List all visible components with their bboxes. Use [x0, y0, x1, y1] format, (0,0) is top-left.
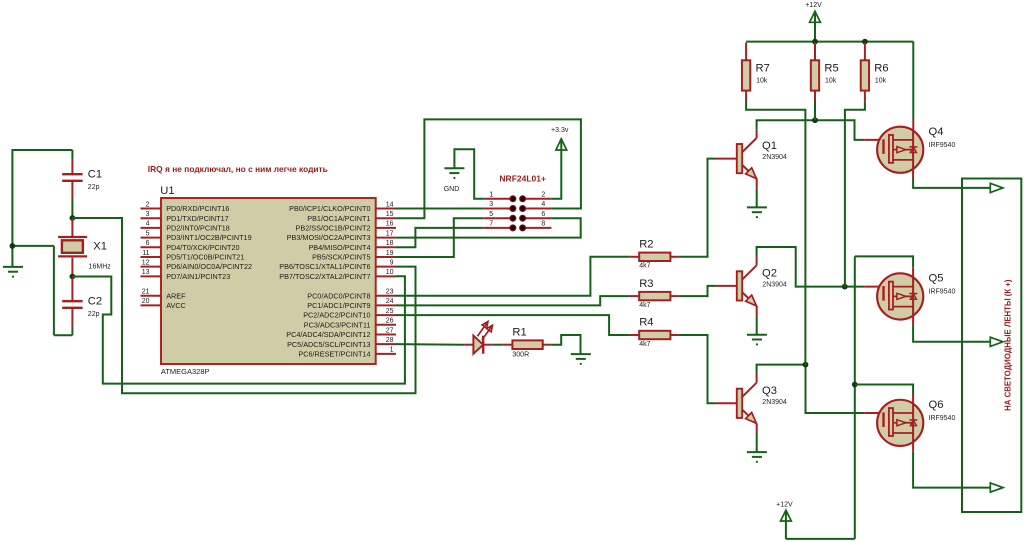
- svg-text:24: 24: [386, 298, 394, 305]
- svg-text:PD4/T0/XCK/PCINT20: PD4/T0/XCK/PCINT20: [166, 243, 239, 252]
- svg-text:R1: R1: [512, 327, 526, 339]
- svg-text:25: 25: [386, 308, 394, 315]
- svg-text:4k7: 4k7: [639, 302, 650, 309]
- svg-text:PC4/ADC4/SDA/PCINT12: PC4/ADC4/SDA/PCINT12: [286, 330, 370, 339]
- svg-text:Q6: Q6: [929, 399, 944, 411]
- svg-text:Q5: Q5: [929, 272, 944, 284]
- svg-text:Q3: Q3: [762, 385, 777, 397]
- svg-text:PD2/INT0/PCINT18: PD2/INT0/PCINT18: [166, 223, 230, 232]
- svg-text:22p: 22p: [88, 311, 100, 318]
- svg-text:PB2/SS/OC1B/PCINT2: PB2/SS/OC1B/PCINT2: [296, 223, 371, 232]
- svg-text:C1: C1: [88, 169, 102, 181]
- svg-text:4: 4: [541, 201, 545, 208]
- svg-text:8: 8: [541, 221, 545, 228]
- svg-text:IRF9540: IRF9540: [929, 142, 956, 149]
- svg-text:2: 2: [541, 192, 545, 199]
- svg-text:22p: 22p: [88, 184, 100, 191]
- svg-text:R4: R4: [639, 317, 653, 329]
- svg-text:3: 3: [146, 211, 150, 218]
- svg-text:10k: 10k: [825, 78, 837, 85]
- svg-text:14: 14: [386, 201, 394, 208]
- svg-text:5: 5: [146, 230, 150, 237]
- svg-text:10k: 10k: [875, 78, 887, 85]
- svg-text:17: 17: [386, 230, 394, 237]
- svg-text:27: 27: [386, 327, 394, 334]
- svg-text:PC5/ADC5/SCL/PCINT13: PC5/ADC5/SCL/PCINT13: [287, 340, 370, 349]
- svg-text:Q4: Q4: [929, 126, 944, 138]
- svg-text:1: 1: [390, 347, 394, 354]
- svg-text:Q2: Q2: [762, 267, 777, 279]
- svg-text:НА СВЕТОДИОДНЫЕ ЛЕНТЫ (К +): НА СВЕТОДИОДНЫЕ ЛЕНТЫ (К +): [1004, 279, 1013, 411]
- svg-text:ATMEGA328P: ATMEGA328P: [161, 367, 210, 376]
- svg-text:23: 23: [386, 289, 394, 296]
- svg-text:+3.3v: +3.3v: [551, 127, 569, 134]
- svg-text:3: 3: [489, 201, 493, 208]
- svg-text:R6: R6: [874, 63, 888, 75]
- svg-text:IRQ я не подключал, но с ним л: IRQ я не подключал, но с ним легче кодит…: [148, 164, 328, 174]
- svg-text:PD5/T1/OC0B/PCINT21: PD5/T1/OC0B/PCINT21: [166, 253, 244, 262]
- svg-text:PB1/OC1A/PCINT1: PB1/OC1A/PCINT1: [307, 214, 370, 223]
- svg-text:R7: R7: [756, 63, 770, 75]
- svg-text:13: 13: [142, 269, 150, 276]
- svg-text:IRF9540: IRF9540: [929, 288, 956, 295]
- svg-text:AVCC: AVCC: [166, 301, 186, 310]
- svg-text:PB0/ICP1/CLKO/PCINT0: PB0/ICP1/CLKO/PCINT0: [289, 204, 370, 213]
- svg-text:+12V: +12V: [776, 501, 793, 508]
- svg-text:PD6/AIN0/OC0A/PCINT22: PD6/AIN0/OC0A/PCINT22: [166, 262, 252, 271]
- svg-text:C2: C2: [88, 296, 102, 308]
- svg-text:4k7: 4k7: [639, 263, 650, 270]
- svg-text:300R: 300R: [512, 352, 529, 359]
- svg-text:Q1: Q1: [762, 140, 777, 152]
- svg-text:10k: 10k: [756, 78, 768, 85]
- svg-text:1: 1: [489, 192, 493, 199]
- svg-text:4: 4: [146, 221, 150, 228]
- svg-text:26: 26: [386, 318, 394, 325]
- svg-text:28: 28: [386, 337, 394, 344]
- svg-text:R3: R3: [639, 278, 653, 290]
- svg-text:PB5/SCK/PCINT5: PB5/SCK/PCINT5: [312, 253, 370, 262]
- svg-text:6: 6: [541, 211, 545, 218]
- svg-text:PB3/MOSI/OC2A/PCINT3: PB3/MOSI/OC2A/PCINT3: [287, 233, 371, 242]
- svg-text:IRF9540: IRF9540: [929, 415, 956, 422]
- svg-text:7: 7: [489, 221, 493, 228]
- svg-text:10: 10: [386, 269, 394, 276]
- svg-text:PD1/TXD/PCINT17: PD1/TXD/PCINT17: [166, 214, 228, 223]
- svg-text:U1: U1: [160, 185, 174, 197]
- svg-text:PD3/INT1/OC2B/PCINT19: PD3/INT1/OC2B/PCINT19: [166, 233, 251, 242]
- svg-text:11: 11: [142, 250, 149, 257]
- svg-text:16: 16: [386, 221, 394, 228]
- svg-text:2N3904: 2N3904: [762, 399, 787, 406]
- svg-text:AREF: AREF: [166, 291, 186, 300]
- svg-text:2: 2: [146, 201, 150, 208]
- svg-text:PB7/TOSC2/XTAL2/PCINT7: PB7/TOSC2/XTAL2/PCINT7: [279, 272, 370, 281]
- svg-text:+12V: +12V: [805, 2, 822, 9]
- svg-text:PD0/RXD/PCINT16: PD0/RXD/PCINT16: [166, 204, 229, 213]
- svg-text:R5: R5: [824, 63, 838, 75]
- svg-text:18: 18: [386, 240, 394, 247]
- svg-text:9: 9: [390, 259, 394, 266]
- svg-text:PD7/AIN1/PCINT23: PD7/AIN1/PCINT23: [166, 272, 230, 281]
- svg-text:20: 20: [142, 298, 150, 305]
- svg-text:PC0/ADC0/PCINT8: PC0/ADC0/PCINT8: [307, 291, 370, 300]
- svg-text:2N3904: 2N3904: [762, 281, 787, 288]
- svg-text:4k7: 4k7: [639, 341, 650, 348]
- svg-text:GND: GND: [444, 186, 460, 193]
- svg-text:NRF24L01+: NRF24L01+: [499, 173, 546, 183]
- svg-text:X1: X1: [93, 241, 107, 253]
- svg-text:2N3904: 2N3904: [762, 154, 787, 161]
- svg-text:6: 6: [146, 240, 150, 247]
- svg-text:PC3/ADC3/PCINT11: PC3/ADC3/PCINT11: [304, 320, 371, 329]
- svg-text:PC6/RESET/PCINT14: PC6/RESET/PCINT14: [298, 349, 370, 358]
- svg-text:PC2/ADC2/PCINT10: PC2/ADC2/PCINT10: [303, 311, 370, 320]
- svg-text:PB4/MISO/PCINT4: PB4/MISO/PCINT4: [308, 243, 370, 252]
- svg-text:16MHz: 16MHz: [89, 263, 112, 270]
- svg-text:PC1/ADC1/PCINT9: PC1/ADC1/PCINT9: [307, 301, 370, 310]
- svg-text:5: 5: [489, 211, 493, 218]
- svg-text:PB6/TOSC1/XTAL1/PCINT6: PB6/TOSC1/XTAL1/PCINT6: [279, 262, 370, 271]
- svg-text:19: 19: [386, 250, 394, 257]
- svg-text:12: 12: [142, 259, 150, 266]
- svg-text:R2: R2: [639, 239, 653, 251]
- svg-text:15: 15: [386, 211, 394, 218]
- svg-text:21: 21: [142, 289, 150, 296]
